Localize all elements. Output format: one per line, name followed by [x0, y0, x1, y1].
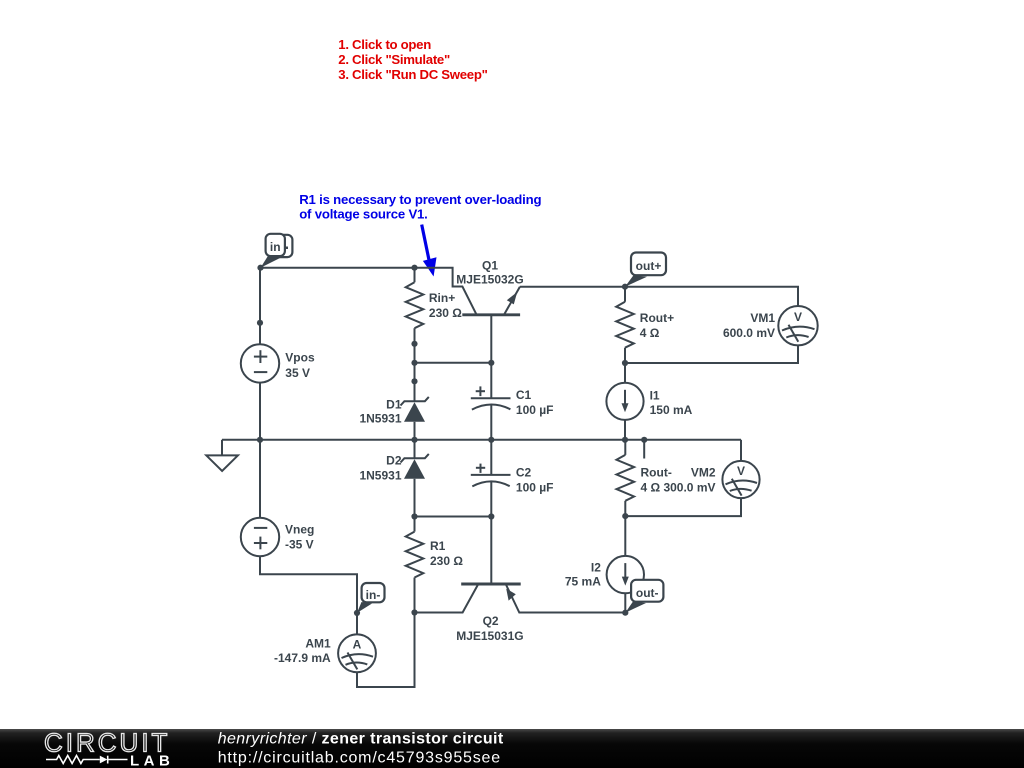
svg-text:R1 is necessary to prevent ove: R1 is necessary to prevent over-loading: [299, 192, 541, 207]
svg-text:-147.9 mA: -147.9 mA: [274, 651, 331, 665]
svg-text:C1: C1: [516, 388, 532, 402]
svg-text:Vpos: Vpos: [285, 350, 315, 364]
svg-text:A: A: [353, 638, 362, 652]
svg-text:henryrichter / zener transisto: henryrichter / zener transistor circuit: [218, 730, 504, 747]
svg-text:100 µF: 100 µF: [516, 481, 554, 495]
svg-text:C2: C2: [516, 466, 532, 480]
svg-text:out+: out+: [636, 259, 662, 273]
svg-text:V: V: [794, 310, 802, 324]
svg-text:4 Ω: 4 Ω: [641, 480, 661, 494]
svg-text:D1: D1: [386, 397, 402, 411]
svg-text:2. Click "Simulate": 2. Click "Simulate": [338, 52, 450, 67]
svg-text:3. Click "Run DC Sweep": 3. Click "Run DC Sweep": [338, 67, 487, 82]
svg-text:I1: I1: [650, 388, 660, 402]
svg-text:1N5931: 1N5931: [359, 469, 401, 483]
svg-text:VM1: VM1: [750, 311, 775, 325]
svg-text:MJE15032G: MJE15032G: [456, 273, 523, 287]
svg-text:-35 V: -35 V: [285, 538, 314, 552]
svg-text:of voltage source V1.: of voltage source V1.: [299, 207, 427, 222]
svg-text:R1: R1: [430, 539, 446, 553]
svg-text:600.0 mV: 600.0 mV: [723, 326, 775, 340]
svg-text:230 Ω: 230 Ω: [429, 306, 462, 320]
svg-text:MJE15031G: MJE15031G: [456, 629, 523, 643]
svg-text:75 mA: 75 mA: [565, 574, 601, 588]
svg-text:VM2: VM2: [691, 466, 716, 480]
svg-text:in: in: [270, 240, 281, 254]
svg-text:I2: I2: [591, 560, 601, 574]
svg-text:300.0 mV: 300.0 mV: [663, 480, 715, 494]
svg-text:4 Ω: 4 Ω: [640, 326, 660, 340]
svg-text:V: V: [737, 464, 745, 478]
svg-text:150 mA: 150 mA: [650, 403, 693, 417]
svg-text:http://circuitlab.com/c45793s9: http://circuitlab.com/c45793s955see: [218, 749, 501, 766]
svg-text:LAB: LAB: [130, 753, 174, 768]
svg-text:Q2: Q2: [483, 614, 499, 628]
svg-text:Rout-: Rout-: [641, 466, 672, 480]
svg-text:100 µF: 100 µF: [516, 403, 554, 417]
svg-text:1. Click to open: 1. Click to open: [338, 37, 431, 52]
svg-text:230 Ω: 230 Ω: [430, 554, 463, 568]
svg-text:D2: D2: [386, 454, 402, 468]
svg-text:35 V: 35 V: [285, 366, 310, 380]
svg-text:Q1: Q1: [482, 259, 498, 273]
svg-text:Vneg: Vneg: [285, 523, 314, 537]
svg-text:Rin+: Rin+: [429, 291, 455, 305]
svg-text:AM1: AM1: [305, 636, 331, 650]
svg-text:Rout+: Rout+: [640, 311, 674, 325]
svg-text:out-: out-: [636, 586, 659, 600]
svg-text:in-: in-: [366, 588, 381, 602]
svg-text:1N5931: 1N5931: [359, 412, 401, 426]
